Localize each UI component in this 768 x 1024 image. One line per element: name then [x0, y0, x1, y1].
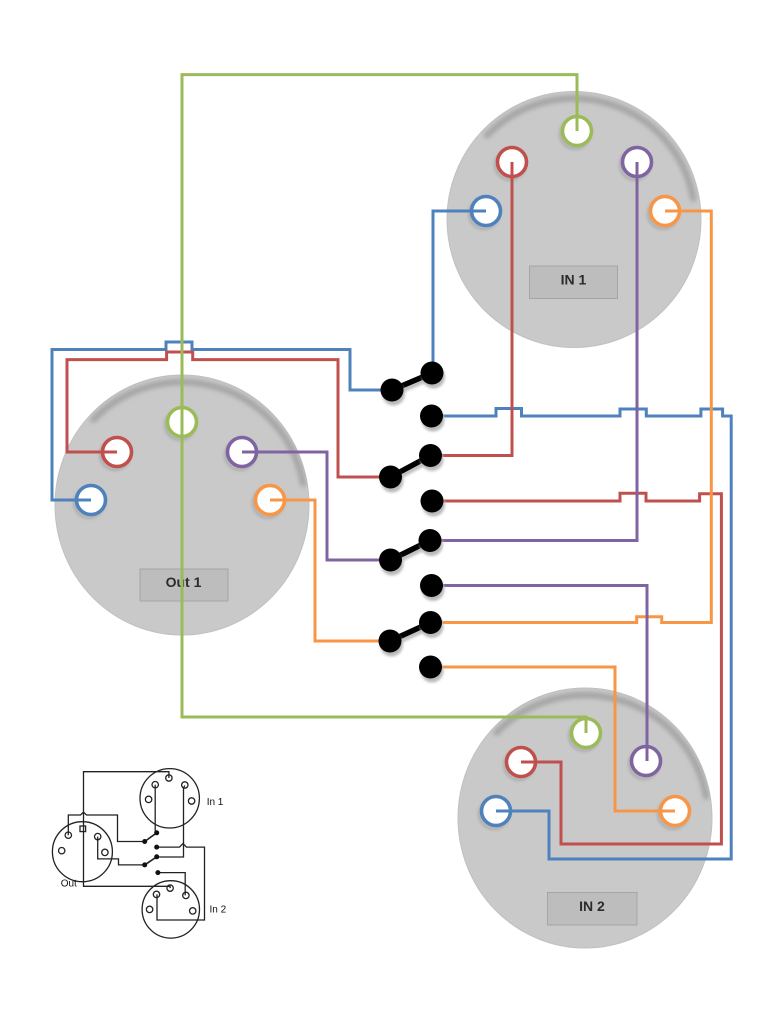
mini connector Out outline: [52, 822, 112, 882]
wire red: Out1 red pin to switch S2 left contact (jump over green): [67, 352, 391, 477]
mini pin In2 UL: [153, 891, 159, 897]
pin Out1 green: [166, 408, 197, 440]
mini pin In2 UR: [183, 892, 189, 898]
mini pin In1 top: [166, 775, 172, 781]
switch S2 common contact: [421, 490, 446, 517]
mini connector In2 outline: [142, 881, 199, 938]
mini contact E: [142, 862, 147, 867]
mini pin In2 right: [190, 908, 196, 914]
wire green net: IN1 green pin to Out1 green pin to IN2 green pin: [182, 75, 586, 733]
mini pin Out UR: [95, 833, 101, 839]
connector IN2 body: [458, 688, 712, 948]
svg-text:In 2: In 2: [210, 905, 227, 916]
pin IN2 red: [505, 748, 536, 780]
mini wire: Out UR pin to contact E: [98, 837, 145, 865]
wire purple: Out1 purple pin to switch S3 left contact: [242, 452, 391, 560]
wire orange: IN1 orange pin to switch S4 right contact (jump over purple): [431, 211, 712, 623]
label box IN 1: [530, 266, 618, 299]
switch S4 lever: [390, 623, 431, 646]
mini wire: ground chain In1 top pin - Out top pin - In2 top pin: [84, 772, 171, 888]
wire purple: switch S3 common to IN2 purple pin: [432, 586, 648, 762]
svg-text:Out: Out: [61, 879, 77, 890]
pin Out1 purple: [226, 438, 257, 470]
mini pin Out right: [102, 849, 108, 855]
pin Out1 blue: [75, 486, 106, 518]
mini contact F: [155, 870, 160, 875]
pin IN2 green: [570, 719, 601, 751]
wire blue: Out1 blue pin to switch S1 left contact (jump over green): [52, 342, 392, 500]
mini pin In1 UL: [152, 782, 158, 788]
mini switch lever A-B: [145, 833, 157, 842]
mini contact C: [154, 845, 159, 850]
mini wire: Out UL pin to contact B (caret jump): [68, 812, 144, 841]
mini schematic (bottom left): [52, 769, 204, 939]
mini wire: In1 UR pin to contact D: [157, 786, 185, 858]
svg-text:In 1: In 1: [207, 797, 224, 808]
mini pin In2 left: [146, 906, 152, 912]
switch S2 lever: [391, 456, 432, 482]
mini pin Out UL: [65, 832, 71, 838]
mini wire: contact F to In2 UR pin: [158, 873, 185, 896]
mini switch lever D-E: [145, 857, 157, 865]
pin IN1 green: [561, 117, 592, 149]
switch S3 lever: [391, 541, 431, 565]
mini connector In1 outline: [140, 769, 199, 828]
wire orange: Out1 orange pin to switch S4 left contact: [270, 500, 390, 641]
wire blue: switch S1 common to IN2 blue pin (jumps over red, purple, orange): [432, 409, 732, 860]
svg-text:IN 2: IN 2: [579, 898, 605, 914]
label box Out 1: [140, 569, 228, 601]
pin IN1 blue: [470, 197, 501, 229]
connector Out1 body: [55, 375, 309, 635]
wire blue: IN1 blue pin to switch S1 right contact: [433, 211, 486, 373]
mini pin In1 right: [188, 798, 194, 804]
switch S2 left contact: [379, 466, 404, 493]
mini pin In1 left: [145, 796, 151, 802]
pin IN2 orange: [659, 797, 690, 829]
mini contact D: [154, 854, 159, 859]
switch S2 right contact: [419, 444, 444, 471]
mini pin Out left: [59, 848, 65, 854]
switch S4 right contact: [419, 611, 444, 638]
switch S3 common contact: [420, 574, 445, 601]
pin IN1 purple: [621, 148, 652, 180]
pin Out1 red: [101, 438, 132, 470]
mini pin In1 UR: [182, 782, 188, 788]
mini pin In2 top: [167, 885, 173, 891]
switch S3 left contact: [379, 549, 404, 576]
mini wire: contact C to In2 UL pin (caret jump): [157, 844, 205, 920]
wire red: switch S2 common to IN2 red pin (jumps over purple, orange): [432, 493, 721, 844]
label box IN 2: [548, 893, 638, 926]
svg-text:IN 1: IN 1: [561, 272, 587, 288]
switch S4 common contact: [419, 656, 444, 683]
connector IN1 body: [447, 92, 701, 348]
pin Out1 orange: [254, 486, 285, 518]
pin IN2 purple: [630, 747, 661, 779]
mini contact A: [154, 830, 159, 835]
svg-text:Out 1: Out 1: [166, 574, 202, 590]
mini contact B: [142, 839, 147, 844]
switch S1 common contact: [420, 405, 445, 432]
switch S4 left contact: [379, 630, 404, 657]
switch S1 lever: [392, 373, 433, 394]
pin IN2 blue: [480, 797, 511, 829]
switch S1 right contact: [421, 362, 446, 389]
switch S1 left contact: [381, 379, 406, 406]
mini pin Out top: [80, 826, 86, 832]
wire orange: switch S4 common to IN2 orange pin: [431, 667, 676, 811]
wire purple: IN1 purple pin to switch S3 right contact: [430, 162, 637, 541]
switch S3 right contact: [419, 529, 444, 556]
pin IN1 red: [496, 148, 527, 180]
wire red: IN1 red pin to switch S2 right contact: [431, 162, 513, 456]
mini wire: In1 UL pin to contact A: [154, 785, 156, 833]
pin IN1 orange: [649, 197, 680, 229]
